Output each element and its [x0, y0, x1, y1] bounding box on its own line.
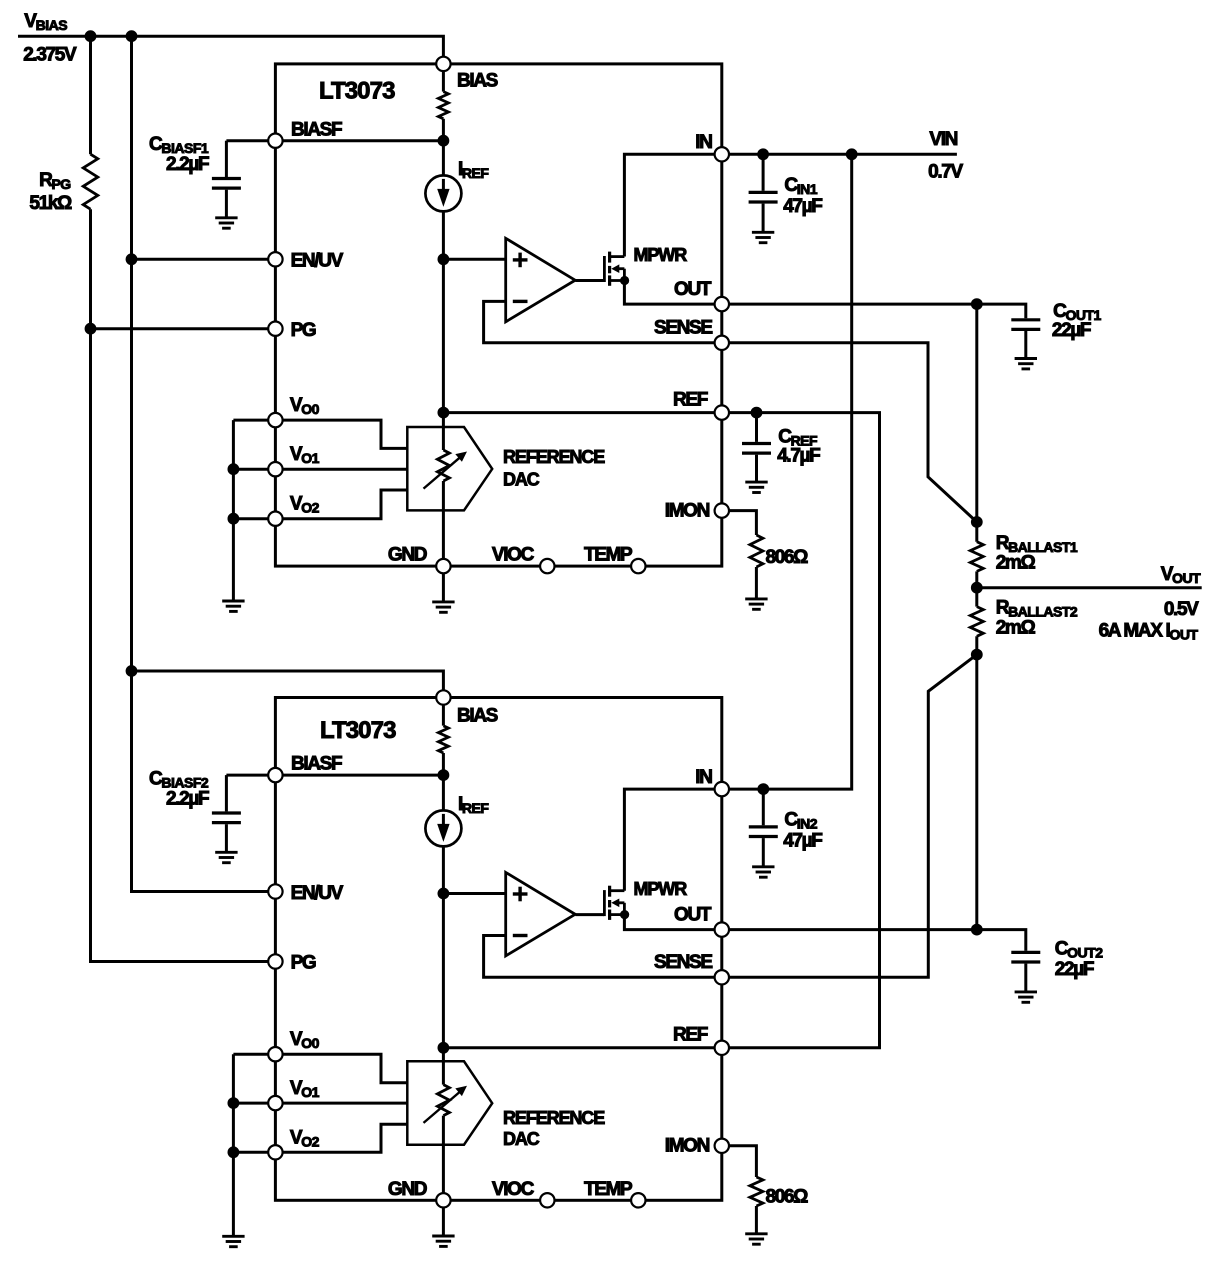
wire VO1 left U2 [233, 1102, 269, 1105]
wire COUT1 bottom lead [1024, 331, 1027, 359]
wire REF1 internal [443, 411, 721, 414]
wire ballast chain upper [975, 304, 978, 542]
svg-text:0.5V: 0.5V [1164, 599, 1199, 620]
ground COUT2 [1015, 992, 1037, 1002]
svg-text:2.2µF: 2.2µF [166, 154, 209, 175]
wire IN2 feed vertical [722, 154, 852, 789]
wire CREF bottom lead [755, 455, 758, 482]
op-amp A1 [506, 238, 576, 321]
pin SENSE U1 [715, 336, 729, 350]
wire COUT2 bottom lead [1024, 964, 1027, 992]
capacitor CIN2 47uF [749, 827, 778, 837]
capacitor CBIASF1 2.2uF [212, 179, 241, 189]
wire resistor to IREF1 [442, 119, 445, 176]
wire RPG to PG2 vertical [91, 209, 270, 961]
pin IN U1 [715, 147, 729, 161]
wire CREF top lead [755, 413, 758, 442]
wire EN/UV1 [132, 258, 270, 261]
node VO1 junction U2 [228, 1097, 240, 1109]
svg-text:47µF: 47µF [783, 196, 822, 217]
wire CBIASF1 top lead [225, 141, 228, 177]
ground VO common U1 [222, 601, 244, 611]
node VIN-IN2 junction [846, 148, 858, 160]
svg-text:GND: GND [388, 545, 427, 566]
svg-text:REF: REF [673, 389, 708, 410]
wire IN1 to drain MPWR1 [624, 154, 721, 256]
IC U1 LT3073 body [275, 64, 721, 566]
svg-text:LT3073: LT3073 [319, 78, 395, 105]
node PG1 junction [85, 323, 97, 335]
wire IN1 to VIN [722, 153, 957, 156]
IC U2 LT3073 body [275, 698, 721, 1201]
wire DAC2 to GND pin [442, 1116, 445, 1201]
wire VO1 to DAC1 [282, 468, 408, 471]
wire CBIASF2 top lead [225, 775, 228, 811]
svg-text:OUT: OUT [674, 905, 712, 926]
wire IREF2 chain down [442, 846, 445, 1085]
svg-text:VOUT: VOUT [1161, 564, 1201, 586]
wire VO2 to DAC2 [282, 1124, 408, 1152]
wire OUT2 to COUT2 [722, 930, 1026, 951]
pin VO2 U2 [268, 1145, 282, 1159]
svg-text:VIN: VIN [929, 129, 957, 150]
node OUT2-ballast junction [971, 924, 983, 936]
svg-text:806Ω: 806Ω [766, 547, 809, 568]
pin PG U1 [268, 322, 282, 336]
wire gate A1 to MPWR1 [575, 279, 604, 282]
svg-text:IN: IN [695, 132, 712, 153]
pin EN/UV U1 [268, 252, 282, 266]
wire BIAS1 to resistor [442, 64, 445, 92]
node IREF2-noninv junction [438, 888, 450, 900]
wire CBIASF2 bottom lead [225, 824, 228, 852]
wire REF2 internal [443, 1046, 721, 1049]
wire BIASF2 internal [275, 774, 443, 777]
wire VBIAS rail [18, 36, 443, 64]
reference DAC U2 outline [407, 1061, 492, 1144]
svg-text:REFERENCE: REFERENCE [503, 447, 605, 467]
svg-text:VO1: VO1 [290, 1078, 320, 1100]
svg-text:VIOC: VIOC [492, 545, 535, 566]
wire BIAS2 feed [132, 671, 444, 698]
capacitor COUT1 22uF [1011, 320, 1040, 330]
wire VO1 to DAC2 [282, 1102, 408, 1105]
wire VO0 left U2 [233, 1053, 269, 1056]
wire VO2 left U1 [233, 517, 269, 520]
wire REF1 tie to REF2 [722, 413, 880, 1048]
svg-text:IMON: IMON [665, 501, 710, 522]
pin REF U1 [715, 405, 729, 419]
op-amp A2 [506, 872, 576, 956]
wire OUT1 to COUT1 [722, 304, 1026, 318]
svg-text:VO2: VO2 [290, 1127, 320, 1149]
node BIAS2 feed junction [126, 665, 138, 677]
svg-text:BIASF: BIASF [291, 120, 342, 141]
node VO1 junction U1 [228, 463, 240, 475]
pin BIASF U2 [268, 768, 282, 782]
svg-text:VBIAS: VBIAS [24, 11, 67, 33]
node OUT1-ballast junction [971, 298, 983, 310]
pin SENSE U2 [715, 970, 729, 984]
node body-source MPWR2 [620, 910, 629, 919]
wire RPG branch vertical [89, 36, 92, 154]
svg-text:6A MAX IOUT: 6A MAX IOUT [1099, 620, 1199, 642]
svg-text:BIAS: BIAS [457, 71, 498, 92]
svg-text:EN/UV: EN/UV [291, 251, 344, 272]
svg-text:CBIASF2: CBIASF2 [149, 769, 209, 791]
pin VO1 U1 [268, 462, 282, 476]
pin TEMP U1 [631, 559, 645, 573]
pin PG U2 [268, 954, 282, 968]
svg-text:CBIASF1: CBIASF1 [149, 134, 209, 156]
ground CREF [745, 482, 767, 492]
node BIASF1-bias junction [438, 135, 450, 147]
pin GND U2 [436, 1193, 450, 1207]
wire R806-1 to ground [755, 567, 758, 599]
reference DAC U2 wiper arrow [424, 1086, 468, 1123]
svg-text:EN/UV: EN/UV [291, 883, 344, 904]
ground COUT1 [1015, 359, 1037, 369]
node sense1 kelvin junction [971, 516, 983, 528]
transistor MPWR U1 [604, 252, 624, 286]
pin OUT U2 [715, 922, 729, 936]
wire VO0 left U1 [233, 419, 269, 422]
resistor bias internal U1 [438, 92, 448, 119]
pin VO0 U2 [268, 1047, 282, 1061]
svg-text:OUT: OUT [674, 279, 712, 300]
pin GND U1 [436, 559, 450, 573]
wire CIN1 bottom lead [762, 204, 765, 233]
wire VO1 left U1 [233, 468, 269, 471]
wire source MPWR2 to OUT2 [624, 915, 721, 930]
svg-text:TEMP: TEMP [584, 1179, 633, 1200]
pin VO2 U1 [268, 512, 282, 526]
resistor 806 ohm U2 [750, 1177, 763, 1206]
node sense2 kelvin junction [971, 649, 983, 661]
wire R806-2 to ground [755, 1206, 758, 1234]
svg-text:0.7V: 0.7V [928, 162, 963, 183]
svg-text:RPG: RPG [39, 170, 71, 192]
variable resistor DAC2 [437, 1085, 449, 1116]
pin VO1 U2 [268, 1096, 282, 1110]
node EN/UV1 junction [126, 253, 138, 265]
wire SENSE1 kelvin [722, 343, 977, 522]
wire BIAS2 to resistor [442, 698, 445, 726]
svg-text:VO1: VO1 [290, 444, 320, 466]
svg-text:REF: REF [673, 1025, 708, 1046]
svg-text:VO0: VO0 [290, 395, 320, 417]
node VO2 junction U1 [228, 513, 240, 525]
svg-text:2mΩ: 2mΩ [996, 617, 1036, 638]
node IREF1-noninv junction [438, 253, 450, 265]
wire EN vertical [132, 36, 270, 891]
wire noninv input U2 [443, 892, 505, 895]
wire VO2 to DAC1 [282, 490, 408, 519]
node CIN1 tap [757, 148, 769, 160]
pin BIAS U2 [436, 690, 450, 704]
svg-text:IMON: IMON [665, 1136, 710, 1157]
svg-text:2mΩ: 2mΩ [996, 553, 1036, 574]
svg-text:SENSE: SENSE [654, 317, 712, 338]
svg-text:CIN2: CIN2 [784, 810, 817, 832]
wire VO0 to DAC2 [282, 1054, 408, 1083]
wire VOUT [977, 586, 1202, 589]
wire feedback A2 to SENSE2 [484, 936, 722, 978]
svg-text:2.375V: 2.375V [23, 45, 77, 66]
pin EN/UV U2 [268, 884, 282, 898]
variable resistor DAC1 [437, 450, 449, 481]
pin BIASF U1 [268, 134, 282, 148]
svg-text:COUT2: COUT2 [1055, 939, 1103, 961]
svg-text:VIOC: VIOC [492, 1179, 535, 1200]
wire IREF1 chain down [442, 211, 445, 450]
wire resistor to IREF2 [442, 753, 445, 811]
svg-text:CIN1: CIN1 [784, 175, 817, 197]
ground R806-1 [745, 599, 767, 609]
node CREF tap [751, 407, 763, 419]
ground CIN2 [752, 867, 774, 877]
ground CIN1 [752, 232, 774, 242]
resistor RBALLAST1 2m [970, 542, 983, 572]
wire GND1 pin to ground [442, 566, 445, 602]
capacitor CREF 4.7uF [742, 444, 771, 454]
wire ballast chain lower [975, 636, 978, 929]
svg-text:MPWR: MPWR [634, 245, 688, 265]
ground VO common U2 [222, 1236, 244, 1246]
svg-text:51kΩ: 51kΩ [29, 193, 72, 214]
svg-text:IREF: IREF [458, 159, 489, 181]
svg-text:IREF: IREF [458, 794, 489, 816]
node body-source MPWR1 [620, 276, 629, 285]
ground R806-2 [745, 1234, 767, 1244]
resistor RBALLAST2 2m [970, 607, 983, 637]
svg-text:TEMP: TEMP [584, 545, 633, 566]
pin TEMP U2 [631, 1193, 645, 1207]
resistor 806 ohm U1 [750, 535, 763, 567]
wire DAC1 to GND pin [442, 481, 445, 566]
svg-text:PG: PG [291, 953, 316, 974]
wire PG1 [91, 327, 270, 330]
wire BIASF1 internal [275, 139, 443, 142]
wire noninv input U1 [443, 258, 505, 261]
svg-text:22µF: 22µF [1052, 320, 1091, 341]
svg-text:22µF: 22µF [1055, 959, 1094, 980]
wire GND2 pin to ground [442, 1200, 445, 1236]
pin BIAS U1 [436, 57, 450, 71]
svg-text:REFERENCE: REFERENCE [503, 1108, 605, 1128]
resistor RPG 51k [83, 154, 98, 209]
capacitor COUT2 22uF [1011, 952, 1040, 962]
node VO2 junction U2 [228, 1146, 240, 1158]
node CIN2 tap [757, 783, 769, 795]
wire CIN2 top lead [762, 789, 765, 826]
current source IREF2 [425, 810, 461, 846]
svg-text:BIASF: BIASF [291, 754, 342, 775]
ground GND1 pin [432, 602, 454, 612]
wire IMON2 to R806-2 [722, 1146, 757, 1177]
ground CBIASF1 [215, 218, 237, 228]
transistor MPWR U2 [604, 886, 624, 920]
pin IMON U2 [715, 1139, 729, 1153]
node REF1 internal junction [438, 407, 450, 419]
svg-text:VO2: VO2 [290, 494, 320, 516]
svg-text:806Ω: 806Ω [766, 1187, 809, 1208]
wire ballast mid [975, 571, 978, 606]
wire BIASF2 to CBIASF2 [226, 774, 269, 777]
svg-text:DAC: DAC [503, 1129, 540, 1149]
capacitor CIN1 47uF [749, 192, 778, 202]
svg-text:RBALLAST1: RBALLAST1 [996, 533, 1078, 555]
pin VIOC U1 [540, 559, 554, 573]
wire VO0 to DAC1 [282, 420, 408, 448]
pin VIOC U2 [540, 1193, 554, 1207]
wire feedback A1 to SENSE1 [484, 301, 722, 342]
wire source MPWR1 to OUT1 [624, 281, 721, 305]
svg-text:2.2µF: 2.2µF [166, 789, 209, 810]
wire CIN2 bottom lead [762, 838, 765, 867]
svg-text:GND: GND [388, 1179, 427, 1200]
svg-text:BIAS: BIAS [457, 706, 498, 727]
pin IMON U1 [715, 503, 729, 517]
svg-text:PG: PG [291, 320, 316, 341]
current source IREF1 [425, 175, 461, 211]
svg-text:IN: IN [695, 767, 712, 788]
pin VO0 U1 [268, 413, 282, 427]
svg-text:DAC: DAC [503, 469, 540, 489]
ground CBIASF2 [215, 852, 237, 862]
wire IN2 to drain MPWR2 [624, 789, 721, 891]
node VBIAS-RPG junction [85, 30, 97, 42]
pin OUT U1 [715, 297, 729, 311]
wire CBIASF1 bottom lead [225, 190, 228, 218]
wire BIASF1 to CBIASF1 [226, 139, 269, 142]
resistor bias internal U2 [438, 726, 448, 753]
wire CIN1 top lead [762, 154, 765, 191]
svg-text:MPWR: MPWR [634, 879, 688, 899]
wire IMON1 to R806-1 [722, 511, 757, 535]
wire VO2 left U2 [233, 1151, 269, 1154]
svg-text:RBALLAST2: RBALLAST2 [996, 598, 1078, 620]
pin IN U2 [715, 782, 729, 796]
svg-text:LT3073: LT3073 [320, 717, 396, 744]
svg-text:VO0: VO0 [290, 1029, 320, 1051]
reference DAC U1 outline [407, 427, 492, 510]
wire SENSE2 kelvin [722, 655, 977, 978]
capacitor CBIASF2 2.2uF [212, 813, 241, 823]
wire VO common vertical U2 [232, 1054, 235, 1236]
node VOUT junction [971, 582, 983, 594]
svg-text:47µF: 47µF [783, 831, 822, 852]
node VBIAS-EN junction [126, 30, 138, 42]
pin REF U2 [715, 1041, 729, 1055]
svg-text:SENSE: SENSE [654, 952, 712, 973]
node REF2 internal junction [438, 1042, 450, 1054]
node BIASF2-bias junction [438, 769, 450, 781]
reference DAC U1 wiper arrow [424, 452, 468, 489]
wire gate A2 to MPWR2 [575, 913, 604, 916]
ground GND2 pin [432, 1236, 454, 1246]
svg-text:4.7µF: 4.7µF [777, 446, 820, 467]
wire VO common vertical U1 [232, 420, 235, 601]
